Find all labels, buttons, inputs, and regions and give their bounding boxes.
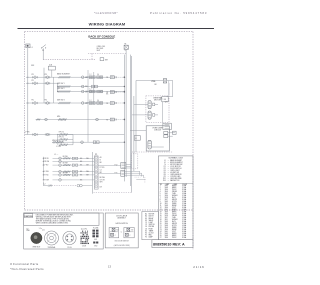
svg-text:P12: P12 [163,178,166,180]
svg-text:3204: 3204 [165,223,169,225]
svg-text:1 2: 1 2 [90,74,92,76]
svg-text:OR/GN: OR/GN [172,215,177,217]
svg-text:25: 25 [160,233,162,235]
svg-text:P8: P8 [164,174,166,176]
svg-text:9: 9 [160,201,161,203]
svg-text:12: 12 [160,207,162,209]
svg-text:HI LIMIT SW: HI LIMIT SW [170,172,179,174]
svg-text:5301: 5301 [165,209,169,211]
svg-text:3017: 3017 [165,217,169,219]
svg-text:BK: BK [80,165,82,167]
svg-text:BROIL ELEMENT: BROIL ELEMENT [170,162,182,164]
svg-text:BK: BK [106,94,108,96]
svg-text:P6: P6 [164,172,166,174]
svg-text:WH: WH [86,158,88,160]
svg-text:BR/PK: BR/PK [172,211,177,213]
svg-text:B1: B1 [145,218,147,220]
svg-text:P13: P13 [45,100,48,102]
svg-text:BK WH: BK WH [100,177,106,179]
svg-text:P13: P13 [45,74,48,76]
svg-text:MW SW 2: MW SW 2 [57,88,65,90]
svg-text:BK: BK [80,171,82,173]
svg-text:C: C [130,235,131,237]
svg-text:NO DOOR SWITCH: NO DOOR SWITCH [115,241,129,243]
svg-text:22: 22 [160,227,162,229]
svg-text:WH: WH [86,171,88,173]
svg-text:SWITCH: SWITCH [149,224,155,226]
svg-text:E1: E1 [145,230,147,232]
svg-text:B2: B2 [145,220,147,222]
svg-text:MW SW 1: MW SW 1 [57,83,65,85]
svg-text:ORNG CML: ORNG CML [97,46,106,48]
svg-text:DLB: DLB [49,64,52,66]
svg-text:GRD: GRD [94,245,97,247]
svg-text:OR/GN: OR/GN [172,191,177,193]
svg-text:L1 —: L1 — [54,154,58,156]
svg-text:CAUTION: CAUTION [24,215,33,218]
svg-text:1: 1 [160,185,161,187]
svg-text:5303: 5303 [165,221,169,223]
svg-text:3204: 3204 [165,237,169,239]
svg-text:LF WH: LF WH [44,171,49,173]
svg-text:WH/WH: WH/WH [172,195,177,197]
svg-text:C2: C2 [100,169,102,171]
svg-text:P1: P1 [164,166,166,168]
svg-text:E2: E2 [145,233,147,235]
svg-text:NO: NO [116,229,118,231]
svg-text:L2: L2 [44,183,46,185]
svg-text:P4: P4 [164,170,166,172]
svg-text:P11: P11 [32,80,35,82]
svg-text:P9: P9 [164,176,166,178]
svg-text:21: 21 [160,225,162,227]
svg-text:*Non-Illustrated Parts: *Non-Illustrated Parts [10,267,44,271]
svg-text:CONTROL BD: CONTROL BD [170,176,181,178]
svg-text:L1: L1 [31,47,33,49]
svg-text:10: 10 [160,203,162,205]
svg-text:VT/VT: VT/VT [172,231,176,233]
svg-text:F2: F2 [145,237,147,239]
svg-text:GROUND WIRE: GROUND WIRE [170,178,181,180]
svg-text:C2: C2 [145,224,147,226]
svg-text:P1: P1 [95,154,97,156]
svg-text:19: 19 [160,221,162,223]
svg-text:2 1 / 1 6: 2 1 / 1 6 [193,265,204,269]
svg-text:6: 6 [160,195,161,197]
svg-text:808959010 REV: A: 808959010 REV: A [153,242,185,246]
svg-text:DOOR SWITCH: DOOR SWITCH [170,168,181,170]
svg-text:BK: BK [80,161,82,163]
svg-text:OVEN SENSOR: OVEN SENSOR [170,174,182,176]
svg-text:3149: 3149 [165,211,169,213]
svg-text:L1: L1 [135,138,137,140]
svg-text:OVEN LIGHT: OVEN LIGHT [170,170,179,172]
svg-text:7: 7 [160,197,161,199]
svg-text:RD/BK: RD/BK [172,229,177,231]
svg-text:RR RD: RR RD [44,158,50,160]
svg-text:WIRE NUT: WIRE NUT [32,247,40,249]
svg-text:13: 13 [160,209,162,211]
svg-text:1 2: 1 2 [90,100,92,102]
svg-text:Quick Fix: Quick Fix [81,228,88,230]
svg-text:3014: 3014 [165,195,169,197]
svg-text:P11: P11 [32,100,35,102]
svg-text:GY/TN: GY/TN [172,225,177,227]
svg-text:BK: BK [80,174,82,176]
svg-text:3131: 3131 [165,203,169,205]
svg-text:P4: P4 [106,103,108,105]
svg-text:RR WH: RR WH [44,161,49,163]
svg-text:3014: 3014 [165,229,169,231]
svg-text:P14: P14 [163,180,166,182]
svg-text:WH: WH [85,86,88,88]
svg-text:BR/PK: BR/PK [172,187,177,189]
svg-text:P2: P2 [106,119,108,121]
svg-text:17: 17 [160,217,162,219]
svg-text:GY OR: GY OR [100,179,106,181]
svg-text:CIRCUIT: CIRCUIT [154,130,162,132]
svg-text:WHT: WHT [97,50,101,52]
svg-text:5303: 5303 [165,201,169,203]
svg-text:20: 20 [160,223,162,225]
svg-text:D1: D1 [145,226,147,228]
svg-text:16: 16 [160,215,162,217]
svg-text:MW SW 3: MW SW 3 [57,99,65,101]
svg-text:MOTOR: MOTOR [149,214,155,216]
svg-text:P11: P11 [32,74,35,76]
svg-text:C1: C1 [145,222,147,224]
svg-text:3: 3 [160,189,161,191]
svg-text:FUSE: FUSE [149,228,153,230]
svg-text:LIGHT: LIGHT [149,222,154,224]
svg-text:PROBE: PROBE [149,226,154,228]
svg-text:DOOR LATCH: DOOR LATCH [116,214,128,217]
svg-text:TN/GY: TN/GY [172,189,177,191]
svg-text:# Functional Parts: # Functional Parts [10,262,39,266]
svg-text:BK WH: BK WH [63,173,68,175]
svg-text:26: 26 [160,235,162,237]
svg-text:18: 18 [160,219,162,221]
svg-text:MOTOR: MOTOR [154,100,161,102]
svg-text:23: 23 [160,229,162,231]
svg-text:5318: 5318 [165,197,169,199]
svg-text:P2: P2 [164,168,166,170]
svg-text:5308: 5308 [165,225,169,227]
svg-text:5308: 5308 [165,235,169,237]
svg-text:3 4: 3 4 [97,100,99,102]
svg-text:WH: WH [86,174,88,176]
svg-text:5303: 5303 [165,233,169,235]
svg-text:CLOCK: CLOCK [149,233,154,235]
svg-text:C: C [115,235,116,237]
svg-text:5303: 5303 [165,185,169,187]
svg-text:RD/BK: RD/BK [172,205,177,207]
svg-text:L1: L1 [164,160,166,162]
svg-text:YL/BL: YL/BL [172,193,176,195]
svg-text:BLK SML: BLK SML [97,48,104,50]
svg-text:WH: WH [86,165,88,167]
svg-text:5308: 5308 [165,205,169,207]
svg-text:1/2: 1/2 [26,228,28,230]
svg-text:BK: BK [80,179,82,181]
svg-text:14: 14 [160,211,162,213]
svg-text:BK WH: BK WH [63,156,68,158]
svg-text:4: 4 [160,191,161,193]
svg-text:D2: D2 [145,228,147,230]
svg-text:L2: L2 [164,162,166,164]
svg-text:3017: 3017 [165,199,169,201]
svg-text:3 4: 3 4 [97,74,99,76]
svg-text:DISCONNECT POWER BEFORE SERVIC: DISCONNECT POWER BEFORE SERVICING UNIT. [36,214,74,216]
svg-text:BL/YL: BL/YL [172,197,176,199]
svg-text:RT RD: RT RD [100,167,106,169]
svg-text:27: 27 [160,237,162,239]
svg-text:3204: 3204 [165,189,169,191]
svg-text:3149: 3149 [165,191,169,193]
svg-text:BL/YL: BL/YL [172,221,176,223]
svg-text:NO: NO [131,229,133,231]
svg-text:BR/PK: BR/PK [172,235,177,237]
svg-text:LINE: LINE [26,230,30,232]
svg-text:2: 2 [160,187,161,189]
svg-text:3149: 3149 [165,227,169,229]
svg-text:RT WH: RT WH [44,180,49,182]
svg-text:N: N [164,164,165,166]
svg-text:WIRING DIAGRAM: WIRING DIAGRAM [89,22,126,27]
svg-text:F1: F1 [145,235,147,237]
svg-text:1 Cu: 1 Cu [39,228,42,230]
svg-text:BK WH: BK WH [63,163,68,165]
svg-text:3204: 3204 [165,207,169,209]
svg-text:LOCK MOTOR: LOCK MOTOR [170,166,181,168]
svg-text:BAKE ELEMENT: BAKE ELEMENT [57,73,70,76]
svg-text:YL/BL: YL/BL [172,217,176,219]
svg-text:Publication No. 5995447583: Publication No. 5995447583 [150,11,207,15]
svg-text:15: 15 [160,213,162,215]
svg-text:P8: P8 [106,92,108,94]
svg-text:24: 24 [160,231,162,233]
svg-text:BLK: BLK [94,239,97,241]
svg-text:1 2: 1 2 [90,89,92,91]
svg-text:CODE: CODE [82,245,86,247]
svg-text:5: 5 [160,193,161,195]
svg-text:P6: P6 [106,77,108,79]
svg-text:3131: 3131 [165,219,169,221]
svg-text:3014: 3014 [165,213,169,215]
svg-text:WH/WH: WH/WH [172,219,177,221]
svg-text:TN/GY: TN/GY [172,213,177,215]
svg-text:MDL: MDL [57,116,61,118]
svg-text:5301: 5301 [165,231,169,233]
svg-text:8: 8 [160,199,161,201]
svg-text:L1 N: L1 N [57,146,62,148]
svg-text:BACK OF CONSOLE: BACK OF CONSOLE [88,35,115,39]
svg-text:BK: BK [80,158,82,160]
svg-text:Fuse/Blk: Fuse/Blk [93,228,99,230]
svg-text:5318: 5318 [165,215,169,217]
svg-text:5308: 5308 [165,187,169,189]
svg-text:*GLES389FSB*: *GLES389FSB* [94,11,119,15]
svg-text:PLUG: PLUG [67,247,72,249]
svg-text:11: 11 [160,205,162,207]
svg-text:GY/TN: GY/TN [172,201,177,203]
svg-text:VT/VT: VT/VT [172,207,176,209]
svg-text:5301: 5301 [165,193,169,195]
svg-text:TN/GY: TN/GY [172,237,177,239]
